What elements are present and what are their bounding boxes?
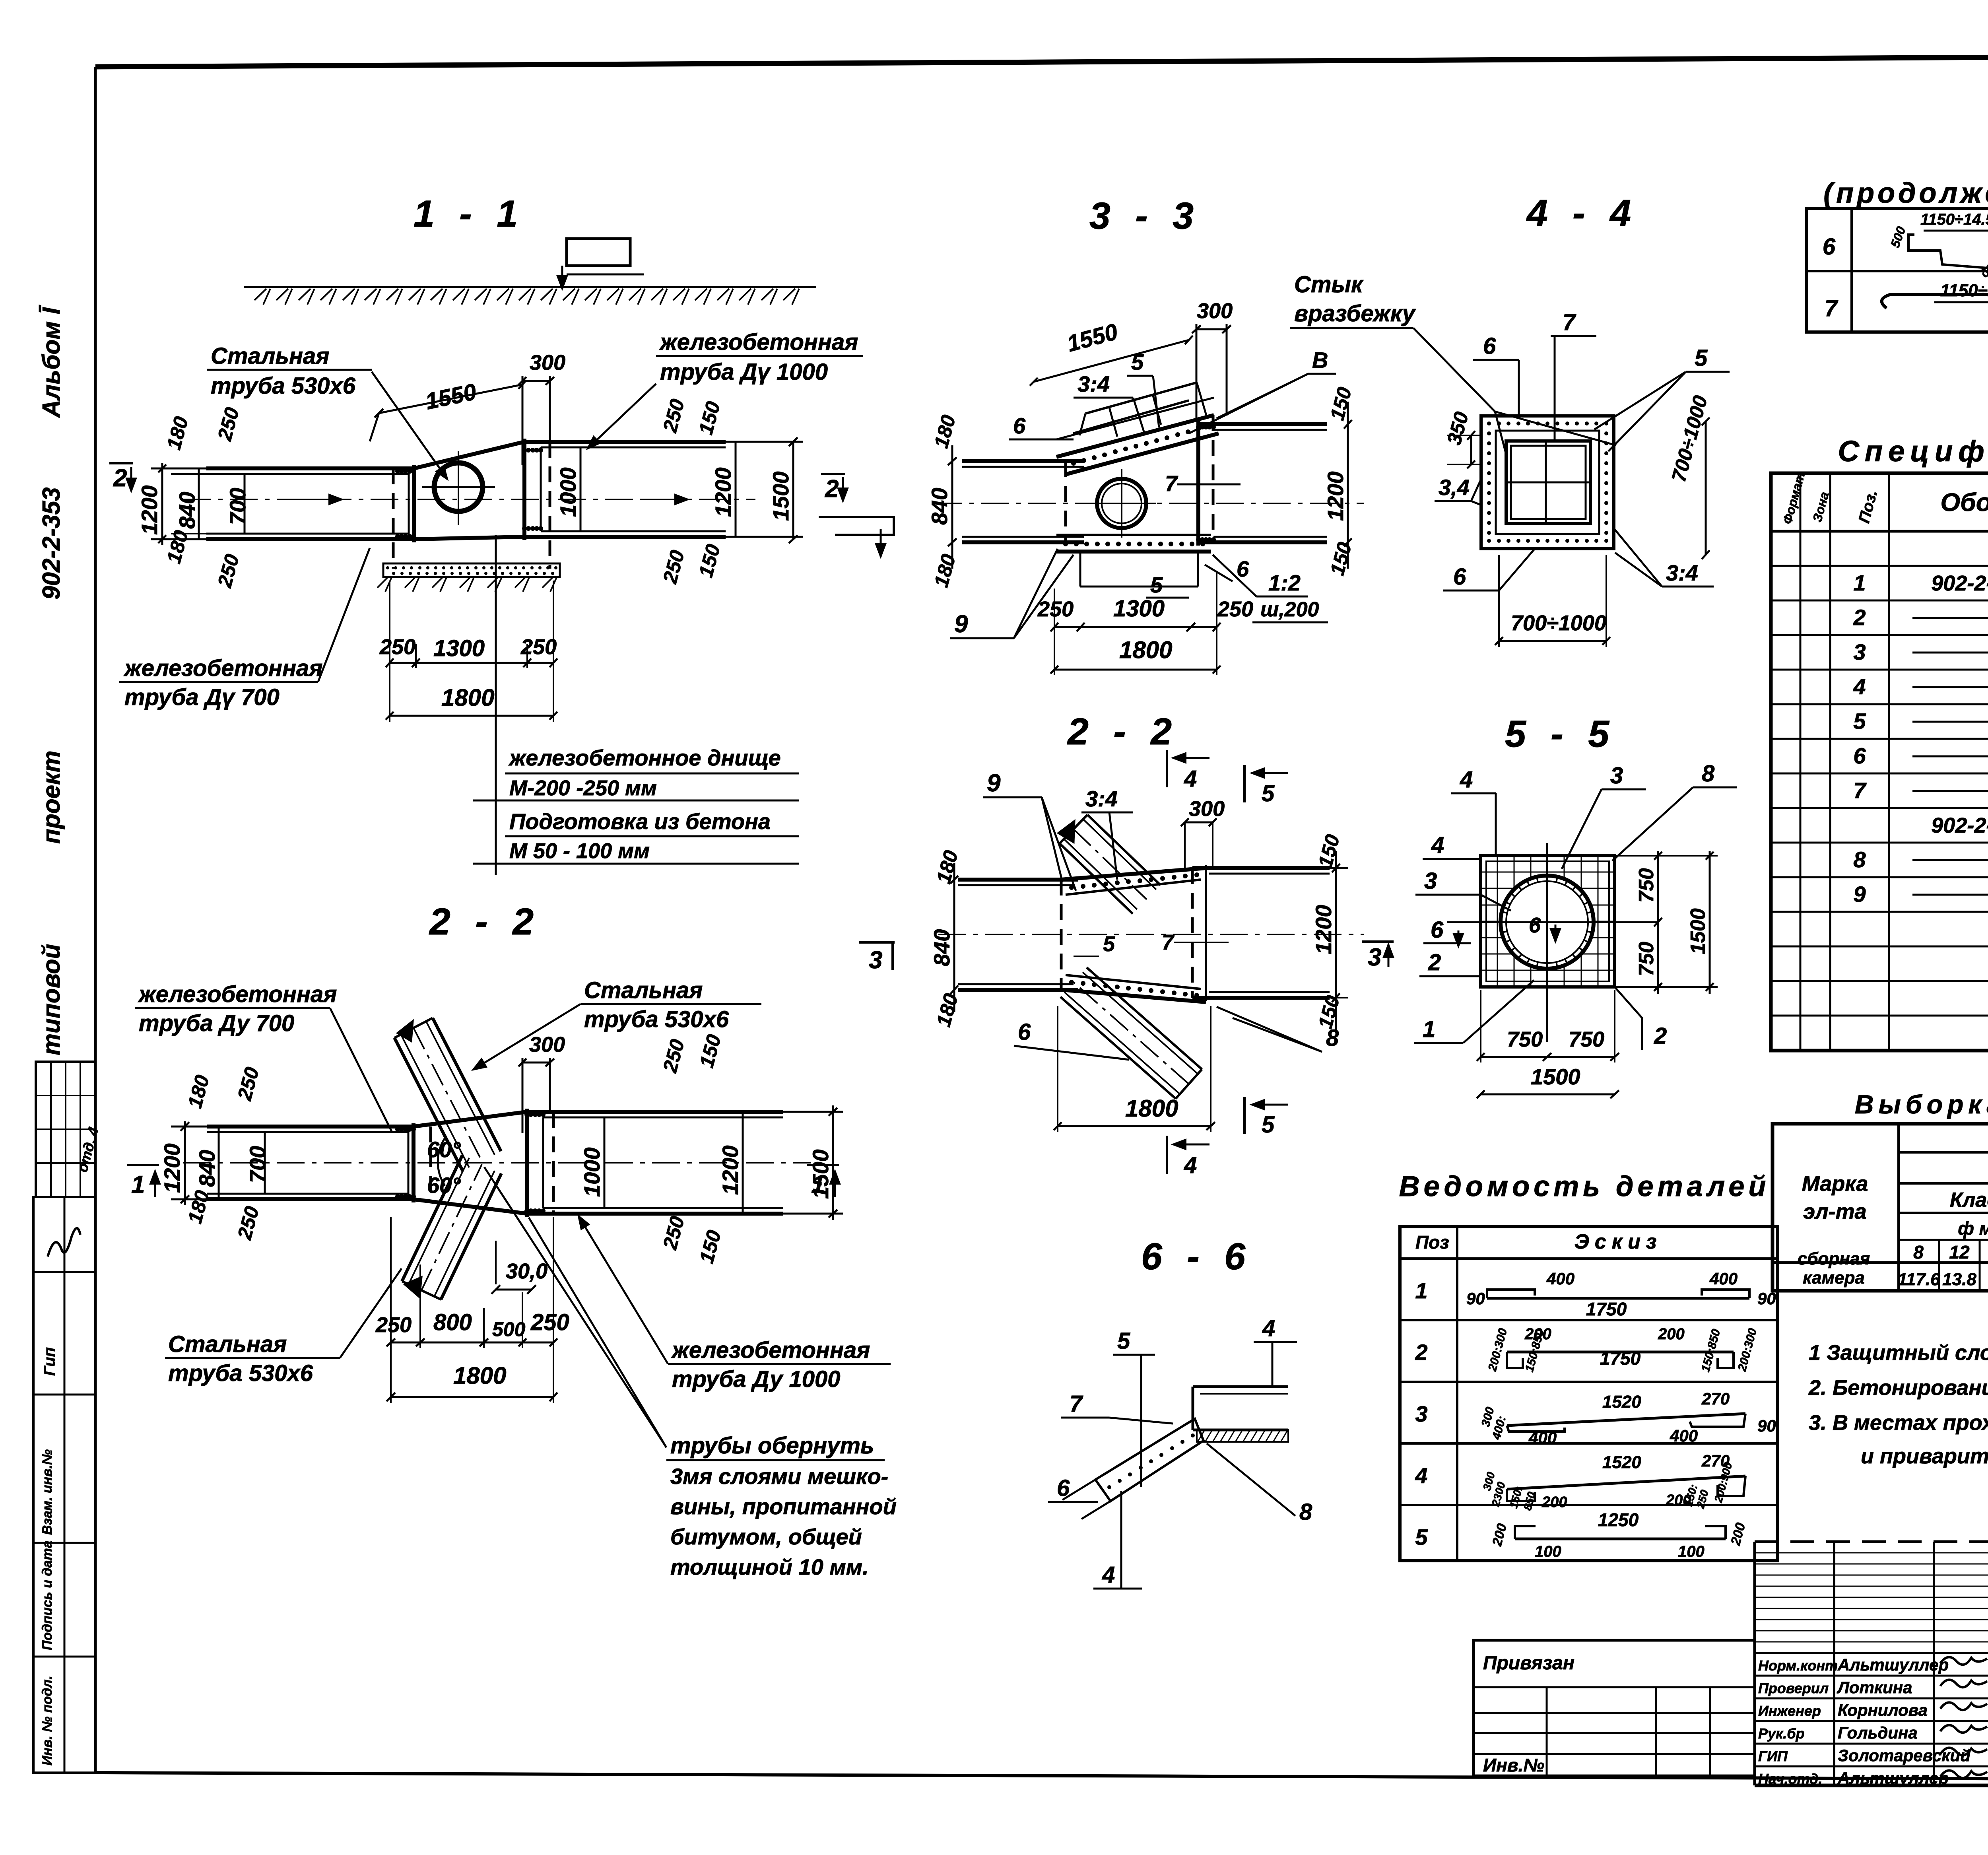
svg-text:902-2-353: 902-2-353 (38, 487, 65, 600)
svg-text:7: 7 (1162, 930, 1175, 954)
svg-text:5 - 5: 5 - 5 (1505, 713, 1616, 755)
svg-text:(продолжение): (продолжение) (1823, 177, 1988, 209)
2-2M chamber walls with rebar (1061, 868, 1206, 880)
svg-text:Инв. № подл.: Инв. № подл. (40, 1676, 55, 1766)
svg-text:1:2: 1:2 (1268, 570, 1301, 595)
vedomost row1 sketch (1487, 1297, 1749, 1300)
2-2M right pipe (1192, 866, 1330, 870)
svg-text:3: 3 (1853, 639, 1866, 664)
vedomost row2 sketch (1507, 1351, 1734, 1354)
svg-text:1200: 1200 (1311, 905, 1336, 954)
centerline (2-2L) (183, 1162, 811, 1164)
chamber roof slope (414, 442, 524, 468)
svg-text:5: 5 (1103, 932, 1115, 956)
3-3 bottom slab with rebar (1056, 534, 1211, 536)
2-2M section marker 5 top (1243, 765, 1246, 802)
vedomost row4 sketch (1507, 1476, 1745, 1489)
svg-text:300: 300 (529, 1033, 565, 1057)
svg-text:8: 8 (1913, 1242, 1924, 1263)
svg-text:железобетонная: железобетонная (138, 981, 337, 1007)
svg-text:5: 5 (1131, 350, 1144, 375)
svg-text:Нач.отд.: Нач.отд. (1758, 1771, 1822, 1787)
svg-text:толщиной 10 мм.: толщиной 10 мм. (670, 1554, 869, 1579)
svg-text:5: 5 (1415, 1525, 1428, 1550)
svg-text:250: 250 (1037, 597, 1074, 621)
svg-text:железобетонная: железобетонная (671, 1337, 870, 1363)
svg-text:6: 6 (1853, 743, 1866, 768)
svg-text:9: 9 (954, 610, 968, 638)
dashed chamber verticals (2-2L) (429, 1127, 432, 1199)
4-4 cross lines (1545, 441, 1547, 524)
svg-text:400: 400 (1670, 1426, 1698, 1445)
svg-text:400: 400 (1528, 1428, 1557, 1447)
steel pipe upper band (394, 1038, 463, 1171)
svg-text:270: 270 (1701, 1389, 1730, 1408)
svg-text:2: 2 (1853, 605, 1866, 630)
svg-text:4 - 4: 4 - 4 (1526, 192, 1638, 234)
svg-text:1520: 1520 (1602, 1392, 1641, 1412)
4-4 inner square (1506, 441, 1590, 524)
svg-text:Гольдина: Гольдина (1838, 1723, 1918, 1742)
svg-text:труба Дү 1000: труба Дү 1000 (660, 359, 828, 385)
svg-text:3: 3 (1610, 763, 1623, 789)
svg-text:250: 250 (379, 635, 415, 659)
vyborka frame (1773, 1124, 1988, 1291)
svg-text:4: 4 (1460, 767, 1473, 793)
svg-text:3. В местах прохода стальны: 3. В местах прохода стальных труб армату… (1809, 1411, 1988, 1435)
vedomost row3 sketch (1507, 1414, 1745, 1426)
svg-text:100: 100 (1678, 1543, 1705, 1560)
svg-text:труба Дү 700: труба Дү 700 (124, 684, 280, 710)
3-3 right pipe (1198, 422, 1327, 426)
2-2M lower diagonal band (1087, 967, 1202, 1069)
svg-text:9: 9 (987, 769, 1001, 797)
prodolzhenie table A (1806, 208, 1988, 332)
svg-text:1200: 1200 (718, 1145, 743, 1195)
svg-text:6: 6 (1529, 913, 1541, 937)
foundation pad (383, 563, 560, 577)
view 1-1 ground line (244, 286, 816, 288)
svg-text:Стальная: Стальная (584, 977, 703, 1003)
svg-text:1: 1 (131, 1171, 145, 1198)
svg-text:сборная: сборная (1798, 1249, 1870, 1268)
svg-text:1200: 1200 (711, 467, 736, 517)
svg-text:90: 90 (1757, 1416, 1776, 1435)
2-2M section marker 4 bottom (1166, 1136, 1168, 1174)
svg-text:железобетонное днище: железобетонное днище (508, 745, 781, 770)
svg-text:1520: 1520 (1602, 1453, 1641, 1472)
svg-text:7: 7 (1853, 778, 1867, 803)
svg-text:300: 300 (1189, 797, 1225, 821)
svg-text:Альтшуллер: Альтшуллер (1837, 1769, 1949, 1787)
svg-text:4: 4 (1184, 1152, 1197, 1178)
5-5 grid (1481, 872, 1615, 873)
right dim stack (2-2L) (604, 1117, 606, 1208)
svg-text:трубы обернуть: трубы обернуть (670, 1433, 874, 1459)
left pipe du700 (2-2L) (207, 1125, 414, 1129)
svg-text:6: 6 (1823, 234, 1836, 260)
svg-text:1 - 1: 1 - 1 (414, 193, 525, 235)
svg-text:2. Бетонирование камеры про: 2. Бетонирование камеры производится пос… (1808, 1376, 1988, 1400)
signature rows (1755, 1652, 1988, 1654)
title block outer (1755, 1540, 1988, 1543)
svg-text:2: 2 (1415, 1340, 1427, 1365)
svg-text:проект: проект (38, 750, 65, 844)
svg-text:Ведомость деталей: Ведомость деталей (1399, 1171, 1770, 1202)
svg-text:2: 2 (113, 464, 127, 492)
svg-text:1200: 1200 (137, 485, 162, 535)
svg-text:Гип: Гип (41, 1347, 58, 1376)
svg-text:камера: камера (1803, 1268, 1865, 1288)
svg-text:5: 5 (1262, 1112, 1275, 1138)
svg-text:Инв.№: Инв.№ (1483, 1755, 1544, 1775)
svg-text:6: 6 (1431, 917, 1444, 943)
svg-text:М-200 -250 мм: М-200 -250 мм (509, 776, 657, 800)
svg-text:13.8: 13.8 (1942, 1270, 1976, 1289)
svg-text:750: 750 (1507, 1028, 1543, 1051)
svg-text:Подготовка из бетона: Подготовка из бетона (509, 809, 771, 834)
svg-text:7: 7 (1165, 471, 1178, 496)
svg-text:труба 530х6: труба 530х6 (168, 1360, 313, 1386)
5-5 right dims (1657, 851, 1659, 994)
svg-text:1500: 1500 (768, 471, 793, 521)
svg-text:3:4: 3:4 (1666, 560, 1698, 585)
strip signature (48, 1228, 80, 1257)
6-6 diagonal band (1095, 1419, 1204, 1501)
svg-text:4: 4 (1184, 766, 1197, 792)
svg-text:1750: 1750 (1600, 1348, 1641, 1369)
svg-text:100: 100 (1535, 1543, 1561, 1560)
bottom stamp table (1474, 1640, 1755, 1776)
svg-text:2: 2 (825, 475, 839, 503)
svg-text:700÷1000: 700÷1000 (1511, 611, 1606, 635)
3-3 upper pipe segments (1073, 400, 1189, 433)
svg-text:3 - 3: 3 - 3 (1089, 195, 1201, 237)
svg-text:6: 6 (1057, 1475, 1070, 1501)
3-3 bottom steps (1079, 552, 1081, 587)
svg-text:8: 8 (1326, 1025, 1339, 1051)
2-2M section marker 5 bottom (1243, 1097, 1246, 1134)
svg-text:6 - 6: 6 - 6 (1141, 1235, 1252, 1278)
right pipe end cap (522, 439, 526, 540)
svg-text:Норм.конт: Норм.конт (1758, 1657, 1838, 1674)
left pipe end cap (408, 468, 410, 539)
svg-text:труба 530х6: труба 530х6 (211, 373, 356, 399)
svg-text:Эскиз: Эскиз (1574, 1230, 1662, 1253)
svg-text:труба 530х6: труба 530х6 (584, 1006, 729, 1032)
svg-text:5: 5 (1150, 572, 1163, 597)
svg-text:1150÷1450: 1150÷1450 (1940, 281, 1988, 300)
svg-text:типовой: типовой (38, 944, 65, 1055)
svg-text:1200: 1200 (159, 1143, 184, 1193)
left stamp strip B (33, 1197, 95, 1773)
3-3 left pipe (962, 459, 1084, 463)
svg-text:840: 840 (927, 488, 952, 525)
right ground step (819, 517, 894, 535)
svg-text:1500: 1500 (808, 1149, 833, 1199)
svg-text:6: 6 (1453, 564, 1466, 590)
5-5 centerlines (1546, 843, 1548, 1042)
svg-text:902-2-353 - КЖ-20: 902-2-353 - КЖ-20 (1931, 571, 1988, 595)
centerline (183, 499, 755, 500)
svg-text:1500: 1500 (1687, 908, 1710, 954)
svg-text:2: 2 (1654, 1023, 1667, 1049)
3-3 right dims (1347, 402, 1349, 569)
svg-text:250: 250 (1217, 597, 1253, 621)
svg-text:труба Ду 700: труба Ду 700 (139, 1010, 294, 1036)
svg-text:Обозначение: Обозначение (1940, 488, 1988, 517)
svg-text:250: 250 (530, 1309, 569, 1335)
svg-text:1750: 1750 (1586, 1299, 1627, 1319)
svg-text:вразбежку: вразбежку (1294, 301, 1416, 326)
svg-text:7: 7 (1825, 295, 1839, 321)
vedomost row5 sketch (1515, 1538, 1726, 1540)
svg-text:Альтшуллер: Альтшуллер (1837, 1655, 1949, 1674)
svg-text:3:4: 3:4 (1085, 786, 1118, 811)
svg-text:1200: 1200 (1323, 471, 1348, 521)
svg-text:3,4: 3,4 (1439, 475, 1470, 500)
svg-text:Рук.бр: Рук.бр (1758, 1725, 1805, 1742)
spec table frame (1771, 473, 1988, 1051)
svg-text:700: 700 (245, 1146, 270, 1183)
steel pipe circle (434, 463, 483, 511)
svg-text:1: 1 (1415, 1278, 1427, 1303)
left stamp grid A (36, 1062, 95, 1197)
2-2M left dims (953, 863, 955, 1012)
svg-text:750: 750 (1635, 942, 1658, 976)
svg-text:Стальная: Стальная (211, 343, 329, 369)
svg-text:2 - 2: 2 - 2 (1067, 711, 1179, 753)
svg-text:6: 6 (1013, 413, 1026, 438)
svg-text:3мя слоями мешко-: 3мя слоями мешко- (670, 1464, 888, 1489)
3-3 left dims (951, 445, 953, 569)
svg-text:750: 750 (1635, 868, 1658, 903)
5-5 outer square (1481, 856, 1615, 987)
leader line down to notes (495, 535, 497, 875)
svg-text:8: 8 (1702, 761, 1715, 787)
4-4 ring hatch dots (1487, 422, 1491, 425)
svg-text:7: 7 (1563, 309, 1576, 335)
svg-text:6: 6 (1237, 556, 1249, 581)
3-3 sloped top band with rebar (1056, 415, 1214, 457)
svg-text:Поз: Поз (1415, 1232, 1449, 1253)
svg-text:Инженер: Инженер (1758, 1703, 1821, 1719)
svg-text:труба Ду 1000: труба Ду 1000 (672, 1366, 840, 1392)
6-6 hatch strip (1197, 1430, 1288, 1442)
svg-text:Подпись и дата: Подпись и дата (40, 1540, 55, 1650)
svg-text:железобетонная: железобетонная (659, 329, 858, 355)
svg-text:200: 200 (1658, 1325, 1685, 1343)
svg-text:ф мм: ф мм (1958, 1218, 1988, 1239)
leader to circle (372, 372, 447, 479)
svg-text:битумом, общей: битумом, общей (670, 1524, 862, 1549)
3-3 centerline (934, 503, 1364, 504)
svg-text:1150÷14.50: 1150÷14.50 (1920, 211, 1988, 228)
right dim stack (580, 447, 582, 531)
svg-text:1 Защитный слой бетона-20м: 1 Защитный слой бетона-20мм., для нижней… (1809, 1341, 1988, 1365)
left pipe Du700 walls (206, 466, 414, 470)
svg-text:1250: 1250 (1598, 1509, 1639, 1530)
svg-text:3: 3 (1368, 944, 1381, 971)
svg-text:М 50 - 100 мм: М 50 - 100 мм (509, 839, 650, 863)
svg-text:117.6: 117.6 (1898, 1270, 1940, 1289)
svg-text:Спецификация сборной камеры: Спецификация сборной камеры (1838, 435, 1988, 468)
3-3 center circle (1097, 479, 1146, 528)
svg-text:4: 4 (1431, 832, 1444, 858)
view 1-1 surface box (567, 239, 630, 266)
svg-text:1300: 1300 (1113, 596, 1165, 622)
dashed section traces (392, 468, 395, 569)
svg-text:Марка: Марка (1802, 1172, 1868, 1196)
svg-text:ГИП: ГИП (1758, 1748, 1788, 1764)
3-3 dashed vertical (1212, 415, 1215, 542)
right pipe Du1000 walls (524, 440, 726, 444)
svg-text:750: 750 (1569, 1028, 1604, 1051)
svg-text:250: 250 (520, 635, 557, 659)
chamber floor (414, 537, 524, 539)
left dim stack (161, 463, 163, 545)
svg-text:4: 4 (1262, 1315, 1275, 1341)
svg-text:9: 9 (1853, 882, 1866, 907)
title block verticals left (1833, 1542, 1835, 1785)
svg-text:3: 3 (1415, 1401, 1427, 1426)
svg-text:вины, пропитанной: вины, пропитанной (670, 1494, 897, 1519)
svg-text:2 - 2: 2 - 2 (429, 901, 541, 943)
vedomost table frame (1400, 1227, 1778, 1561)
svg-text:эл-та: эл-та (1803, 1200, 1866, 1224)
svg-text:1000: 1000 (579, 1147, 604, 1197)
svg-text:1800: 1800 (453, 1362, 506, 1389)
svg-text:7: 7 (1070, 1391, 1083, 1417)
5-5 circle (1501, 876, 1594, 969)
svg-text:5: 5 (1117, 1328, 1130, 1354)
svg-text:Взам. инв.№: Взам. инв.№ (40, 1449, 55, 1535)
svg-text:1500: 1500 (1531, 1064, 1580, 1089)
svg-text:1000: 1000 (555, 467, 580, 517)
svg-text:400: 400 (1546, 1269, 1574, 1288)
svg-text:1: 1 (1423, 1016, 1435, 1042)
2-2M right dims (1335, 851, 1337, 1030)
svg-text:250: 250 (375, 1313, 412, 1337)
svg-text:4: 4 (1853, 674, 1866, 699)
svg-text:Корнилова: Корнилова (1838, 1701, 1928, 1719)
frame left border (94, 67, 97, 1773)
2-2M section marker 4 top (1166, 750, 1168, 787)
svg-text:1300: 1300 (433, 635, 485, 661)
svg-text:1800: 1800 (441, 684, 494, 711)
svg-text:1: 1 (1853, 570, 1866, 595)
svg-text:902-2-353 - КЖ-20: 902-2-353 - КЖ-20 (1931, 814, 1988, 837)
svg-text:700: 700 (225, 488, 250, 525)
svg-text:ш,200: ш,200 (1260, 598, 1319, 621)
svg-text:4: 4 (1415, 1463, 1427, 1488)
svg-text:В: В (1312, 348, 1328, 373)
svg-text:90: 90 (1466, 1289, 1485, 1308)
svg-text:200: 200 (1541, 1494, 1567, 1511)
6-6 pipe rect (1193, 1385, 1288, 1388)
svg-text:840: 840 (175, 492, 200, 529)
chamber roof/floor (2-2L) (414, 1112, 527, 1127)
svg-text:300: 300 (1197, 299, 1233, 323)
svg-text:6: 6 (1018, 1019, 1031, 1045)
svg-text:840: 840 (194, 1150, 219, 1187)
svg-text:4: 4 (1102, 1562, 1115, 1588)
2-2M dashed verticals (1060, 880, 1063, 990)
svg-text:и приварить к трубе.: и приварить к трубе. (1861, 1444, 1988, 1468)
svg-text:500: 500 (492, 1318, 526, 1340)
svg-text:5: 5 (1853, 709, 1866, 734)
svg-text:1800: 1800 (1119, 637, 1172, 663)
svg-text:5: 5 (1695, 345, 1708, 371)
svg-text:400: 400 (1709, 1269, 1738, 1288)
2-2M centerline (938, 934, 1364, 935)
frame top border (95, 54, 1988, 67)
svg-text:6: 6 (1483, 333, 1496, 359)
svg-text:Альбом Ī: Альбом Ī (38, 305, 65, 418)
2-2M left pipe (958, 878, 1078, 882)
svg-text:3: 3 (869, 946, 882, 974)
svg-text:8: 8 (1299, 1499, 1312, 1525)
svg-text:Выборка стали на один элем: Выборка стали на один элемент кг (1855, 1090, 1988, 1119)
svg-text:Проверил: Проверил (1758, 1680, 1829, 1696)
svg-text:5: 5 (1262, 781, 1275, 806)
svg-text:Класс А1: Класс А1 (1950, 1189, 1988, 1212)
svg-text:2: 2 (1428, 950, 1441, 975)
svg-text:800: 800 (433, 1309, 472, 1335)
svg-text:3:4: 3:4 (1077, 371, 1110, 396)
svg-text:8: 8 (1853, 847, 1866, 872)
svg-text:30,0: 30,0 (506, 1259, 547, 1283)
steel pipe lower band (441, 1173, 501, 1299)
svg-text:Привязан: Привязан (1483, 1653, 1574, 1674)
svg-text:12: 12 (1949, 1242, 1970, 1263)
svg-text:840: 840 (929, 929, 954, 966)
title block small rows top-left (1755, 1552, 1988, 1554)
left dim stack (2-2L) (184, 1121, 186, 1205)
2-2M upper diagonal band (1060, 843, 1133, 914)
svg-text:1800: 1800 (1125, 1095, 1178, 1122)
svg-text:железобетонная: железобетонная (123, 655, 322, 681)
frame bottom border (95, 1773, 1988, 1781)
right pipe du1000 (2-2L) (527, 1110, 783, 1114)
svg-text:Стык: Стык (1294, 272, 1364, 297)
svg-text:3: 3 (1424, 868, 1437, 894)
4-4 outer square (1481, 416, 1614, 549)
svg-text:Стальная: Стальная (168, 1331, 287, 1357)
svg-text:300: 300 (530, 351, 565, 375)
svg-text:Лоткина: Лоткина (1837, 1678, 1912, 1697)
